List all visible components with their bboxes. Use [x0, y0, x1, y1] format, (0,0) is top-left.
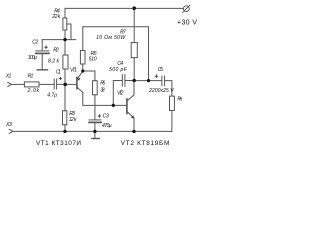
- resistor R6: [93, 81, 98, 95]
- svg-text:33: 33: [100, 87, 104, 93]
- capacitor C5: [162, 76, 165, 86]
- svg-text:10 Ом 50W: 10 Ом 50W: [96, 35, 126, 41]
- label C3 plus: [98, 115, 101, 118]
- connector X1: [8, 82, 12, 86]
- wire Rn bottom lead: [171, 111, 173, 132]
- node VT2 emitter / rail junction: [132, 130, 135, 133]
- terminal +30V: [183, 5, 190, 12]
- capacitor C3: [89, 120, 101, 123]
- wire R1 to C1: [39, 83, 54, 85]
- node VT1 base / C1 / R2 / R3 junction: [63, 83, 67, 87]
- svg-text:500 pF: 500 pF: [109, 67, 128, 73]
- label C2 plus: [45, 46, 48, 49]
- wire X1 to R1: [12, 83, 25, 85]
- resistor R1: [24, 82, 39, 87]
- svg-text:C2: C2: [32, 40, 38, 46]
- connector X3: [9, 129, 13, 133]
- wire C1 to VT1 base: [57, 83, 77, 85]
- svg-text:R2: R2: [53, 47, 59, 53]
- wire C2 bottom lead: [41, 54, 43, 69]
- wire top rail +30V: [65, 7, 183, 9]
- wire VT2 collector up to output node: [133, 81, 135, 95]
- plus polarity marks: [45, 46, 158, 118]
- wire C4 right lead to collector node: [125, 80, 134, 82]
- capacitor C4: [122, 75, 125, 87]
- wire bottom common rail: [13, 130, 172, 132]
- node R3 / rail junction: [63, 130, 66, 133]
- svg-text:4.7µ: 4.7µ: [47, 93, 57, 99]
- wire C5 to Rn: [165, 81, 172, 97]
- wire R3 bottom lead: [64, 125, 66, 132]
- svg-text:VT2: VT2: [117, 91, 124, 97]
- transistor VT1: [77, 71, 83, 92]
- wire emitter node to R6: [83, 71, 95, 81]
- wire C4 left leg: [113, 81, 122, 106]
- wire R4 wiper tap: [67, 24, 71, 40]
- svg-text:C1: C1: [56, 70, 61, 76]
- svg-text:470µ: 470µ: [102, 123, 112, 129]
- node collector/R7/C4 junction: [133, 79, 136, 82]
- svg-text:+30 V: +30 V: [177, 19, 197, 26]
- resistor R2: [63, 55, 68, 69]
- capacitor C1: [54, 79, 56, 89]
- resistor R3: [63, 111, 67, 125]
- wire R5 bottom lead: [82, 64, 84, 71]
- svg-text:X3: X3: [5, 122, 12, 128]
- svg-text:R6: R6: [100, 80, 105, 86]
- label C1 plus: [59, 77, 61, 79]
- wire node A horizontal: [42, 39, 76, 41]
- node VT1 emitter / R5 junction: [81, 69, 84, 72]
- svg-text:2200х25 V: 2200х25 V: [148, 88, 174, 94]
- wire R7 bottom lead: [133, 58, 135, 81]
- svg-text:R1: R1: [28, 74, 34, 80]
- node C3 / rail junction: [93, 130, 96, 133]
- wire VT2 emitter down to rail: [133, 118, 135, 131]
- node A junction R4/R2/C2: [63, 38, 66, 41]
- node feedback/output junction: [147, 79, 150, 82]
- wire R2 top lead: [64, 40, 66, 55]
- resistor R4: [63, 18, 67, 30]
- resistor R5: [80, 50, 85, 64]
- wire VT1 collector down and right to VT2 base: [83, 92, 127, 105]
- wire C2 top lead: [41, 40, 43, 51]
- label C5 plus: [155, 75, 158, 78]
- ground chassis bar under C2: [37, 69, 47, 71]
- capacitor C2: [36, 51, 49, 54]
- resistor Rn load: [170, 96, 175, 110]
- svg-text:X1: X1: [5, 73, 12, 79]
- svg-text:VT1 КТ3107И: VT1 КТ3107И: [36, 140, 81, 147]
- wire R4 bottom lead: [64, 30, 66, 40]
- node C4 leg / VT2 base junction: [112, 104, 115, 107]
- ground chassis symbol on bottom rail: [92, 131, 99, 138]
- wire R2 bottom lead: [64, 69, 66, 84]
- wire feedback line: [83, 27, 149, 81]
- wire R5 top lead to feedback line: [82, 27, 84, 51]
- wire R7 top lead from rail: [133, 8, 135, 42]
- svg-text:12 k: 12 k: [69, 117, 77, 123]
- junction node dots: [63, 6, 150, 133]
- wire output line to C5: [134, 80, 161, 82]
- transistor VT2: [127, 95, 134, 119]
- svg-text:Rн: Rн: [177, 96, 182, 102]
- svg-text:8.2 k: 8.2 k: [48, 58, 59, 64]
- node top rail / R7 junction: [132, 6, 136, 10]
- wire C3 bottom lead: [94, 123, 96, 131]
- svg-text:C5: C5: [158, 67, 164, 73]
- wire R6 bottom to C3: [94, 95, 96, 120]
- wire R4 top lead: [64, 8, 66, 18]
- svg-text:22 k: 22 k: [51, 14, 60, 20]
- svg-text:VT1: VT1: [70, 68, 77, 74]
- resistor R7: [131, 43, 137, 58]
- svg-text:510: 510: [89, 56, 97, 62]
- svg-text:VT2 КТ819БМ: VT2 КТ819БМ: [121, 140, 170, 147]
- svg-text:2.0k: 2.0k: [27, 88, 40, 94]
- wire R3 top lead: [64, 84, 66, 110]
- svg-text:100µ: 100µ: [28, 55, 37, 61]
- svg-text:C3: C3: [103, 113, 109, 119]
